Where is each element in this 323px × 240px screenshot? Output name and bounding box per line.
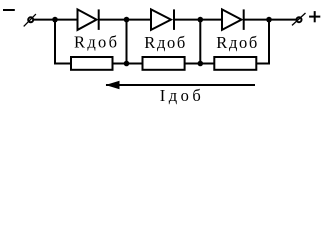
svg-text:Rдоб: Rдоб <box>144 33 185 52</box>
terminal left (circle) <box>28 17 33 22</box>
minus sign (left polarity label) <box>3 9 15 11</box>
terminal right slash <box>292 13 306 25</box>
diode VD2 cathode bar <box>173 9 175 30</box>
diode VD1 triangle <box>78 9 97 30</box>
bottom node C junction dot <box>198 61 204 67</box>
resistor R2 body <box>143 57 185 70</box>
current arrow Idob head <box>106 81 120 89</box>
diode VD1 cathode bar <box>98 9 100 30</box>
bottom node B junction dot <box>124 61 130 67</box>
svg-text:Iдоб: Iдоб <box>160 86 201 105</box>
wire R2 to bottom node C <box>185 63 215 65</box>
node A junction dot <box>52 17 58 23</box>
wire R1 to bottom node B <box>113 63 143 65</box>
wire vertical node D down <box>268 20 270 65</box>
current arrow Idob shaft <box>106 84 255 86</box>
wire vertical node A down <box>54 20 56 65</box>
wire vertical node B down <box>126 20 128 64</box>
diode VD3 cathode bar <box>243 9 245 30</box>
wire terminal-left to node A <box>34 19 79 21</box>
plus sign (right polarity label) <box>309 16 320 18</box>
wire VD1 to node B <box>98 19 152 21</box>
terminal left slash <box>24 14 36 26</box>
node D junction dot <box>266 17 272 23</box>
node C junction dot <box>198 17 204 23</box>
wire R3 to node D drop <box>256 63 270 65</box>
wire VD3 to terminal right <box>243 19 296 21</box>
node B junction dot <box>124 17 130 23</box>
terminal right (circle) <box>297 17 302 22</box>
wire lead to R1 <box>54 63 72 65</box>
wire VD2 to node C <box>173 19 223 21</box>
svg-text:Rдоб: Rдоб <box>216 33 257 52</box>
svg-text:Rдоб: Rдоб <box>74 33 117 52</box>
resistor R3 body <box>214 57 256 70</box>
wire vertical node C down <box>199 20 201 64</box>
diode VD3 triangle <box>222 9 242 30</box>
diode VD2 triangle <box>151 9 171 30</box>
resistor R1 body <box>71 57 113 70</box>
